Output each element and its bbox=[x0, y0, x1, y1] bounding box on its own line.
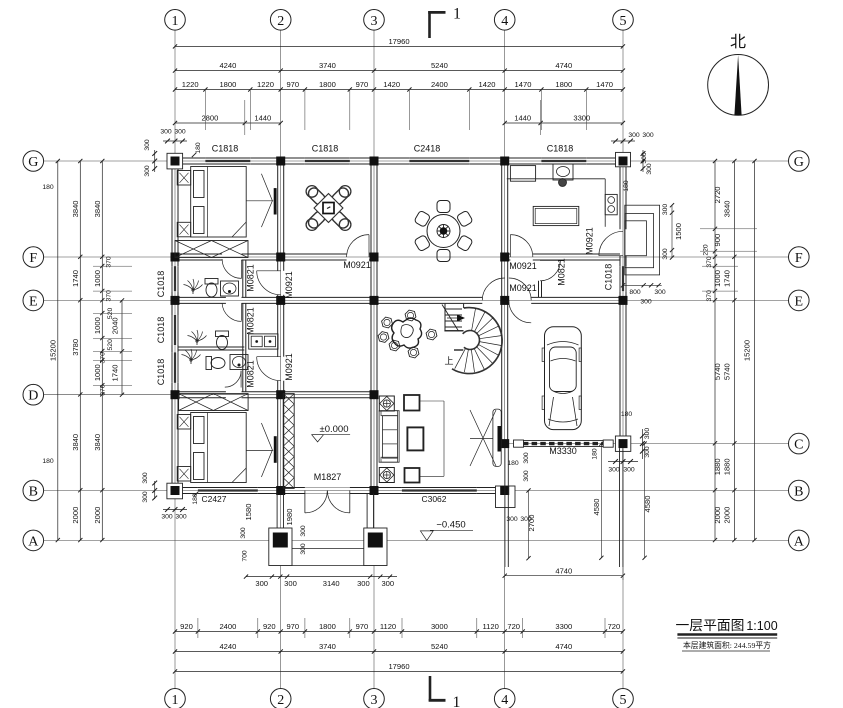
svg-text:180: 180 bbox=[621, 411, 633, 418]
svg-text:3840: 3840 bbox=[723, 200, 732, 217]
svg-text:300: 300 bbox=[523, 470, 530, 482]
svg-text:一层平面图: 一层平面图 bbox=[676, 618, 745, 633]
svg-text:1980: 1980 bbox=[285, 509, 294, 526]
svg-text:180: 180 bbox=[592, 448, 599, 460]
svg-text:180: 180 bbox=[42, 458, 54, 465]
svg-text:北: 北 bbox=[730, 33, 746, 51]
svg-text:1740: 1740 bbox=[111, 365, 120, 382]
svg-text:1800: 1800 bbox=[219, 80, 236, 89]
svg-text:C1018: C1018 bbox=[156, 359, 166, 386]
svg-text:E: E bbox=[29, 294, 38, 309]
svg-text:220: 220 bbox=[703, 244, 710, 256]
svg-text:1:100: 1:100 bbox=[746, 619, 777, 633]
svg-text:1000: 1000 bbox=[713, 270, 722, 287]
svg-text:180: 180 bbox=[192, 493, 199, 505]
svg-text:520: 520 bbox=[107, 339, 114, 351]
svg-text:3300: 3300 bbox=[555, 622, 572, 631]
svg-text:上: 上 bbox=[444, 356, 453, 366]
svg-text:1: 1 bbox=[453, 6, 461, 23]
svg-text:5740: 5740 bbox=[713, 363, 722, 380]
svg-text:B: B bbox=[29, 485, 38, 500]
svg-text:2000: 2000 bbox=[713, 507, 722, 524]
svg-text:300: 300 bbox=[640, 299, 652, 306]
svg-text:300: 300 bbox=[160, 129, 172, 136]
svg-text:1120: 1120 bbox=[483, 622, 499, 631]
svg-text:1420: 1420 bbox=[479, 80, 496, 89]
svg-text:300: 300 bbox=[662, 204, 669, 216]
svg-text:300: 300 bbox=[641, 152, 648, 164]
svg-text:300: 300 bbox=[520, 516, 532, 523]
svg-text:E: E bbox=[795, 294, 804, 309]
svg-text:920: 920 bbox=[180, 622, 193, 631]
svg-text:300: 300 bbox=[642, 132, 654, 139]
svg-text:1500: 1500 bbox=[674, 223, 683, 240]
svg-text:3840: 3840 bbox=[71, 434, 80, 451]
svg-text:300: 300 bbox=[381, 579, 394, 588]
svg-text:300: 300 bbox=[644, 446, 651, 458]
svg-text:300: 300 bbox=[175, 514, 187, 521]
svg-text:3: 3 bbox=[371, 693, 378, 708]
svg-text:M0821: M0821 bbox=[557, 258, 567, 286]
svg-text:C: C bbox=[794, 438, 803, 453]
svg-text:1740: 1740 bbox=[71, 270, 80, 287]
svg-text:720: 720 bbox=[608, 622, 621, 631]
svg-text:C1818: C1818 bbox=[547, 144, 574, 154]
svg-text:1000: 1000 bbox=[93, 317, 102, 334]
svg-text:3840: 3840 bbox=[93, 200, 102, 217]
svg-text:5240: 5240 bbox=[431, 642, 448, 651]
svg-text:970: 970 bbox=[286, 622, 299, 631]
svg-text:300: 300 bbox=[300, 543, 307, 555]
svg-text:2: 2 bbox=[277, 14, 284, 29]
svg-text:−0.450: −0.450 bbox=[436, 520, 465, 531]
svg-text:M0821: M0821 bbox=[246, 264, 256, 292]
svg-text:300: 300 bbox=[662, 248, 669, 260]
svg-text:4580: 4580 bbox=[643, 496, 652, 513]
svg-text:3000: 3000 bbox=[431, 622, 448, 631]
svg-text:4740: 4740 bbox=[555, 61, 572, 70]
svg-text:300: 300 bbox=[628, 132, 640, 139]
svg-text:1470: 1470 bbox=[596, 80, 613, 89]
svg-text:180: 180 bbox=[507, 460, 519, 467]
svg-text:1120: 1120 bbox=[380, 622, 396, 631]
svg-text:17960: 17960 bbox=[388, 662, 409, 671]
svg-text:4580: 4580 bbox=[592, 499, 601, 516]
svg-text:3780: 3780 bbox=[71, 339, 80, 356]
svg-text:370: 370 bbox=[706, 290, 713, 302]
svg-text:D: D bbox=[28, 389, 38, 404]
svg-text:5240: 5240 bbox=[431, 61, 448, 70]
svg-text:300: 300 bbox=[300, 525, 307, 537]
svg-text:300: 300 bbox=[240, 527, 247, 539]
svg-text:G: G bbox=[28, 155, 38, 170]
svg-text:1220: 1220 bbox=[182, 80, 199, 89]
svg-text:M0821: M0821 bbox=[246, 360, 256, 388]
svg-text:2400: 2400 bbox=[219, 622, 236, 631]
svg-text:15200: 15200 bbox=[743, 340, 752, 361]
svg-text:5740: 5740 bbox=[723, 363, 732, 380]
svg-text:F: F bbox=[29, 251, 37, 266]
svg-text:300: 300 bbox=[144, 165, 151, 177]
svg-text:1880: 1880 bbox=[713, 458, 722, 475]
svg-text:1440: 1440 bbox=[514, 114, 531, 123]
svg-text:300: 300 bbox=[144, 139, 151, 151]
svg-text:970: 970 bbox=[356, 622, 369, 631]
svg-text:C2418: C2418 bbox=[414, 144, 441, 154]
svg-text:1440: 1440 bbox=[254, 114, 271, 123]
svg-text:M0921: M0921 bbox=[509, 261, 537, 271]
svg-text:M0921: M0921 bbox=[509, 283, 537, 293]
svg-text:C3062: C3062 bbox=[421, 494, 446, 504]
svg-text:970: 970 bbox=[356, 80, 369, 89]
svg-text:1800: 1800 bbox=[555, 80, 572, 89]
svg-text:300: 300 bbox=[255, 579, 268, 588]
svg-text:4740: 4740 bbox=[555, 566, 572, 575]
svg-text:5: 5 bbox=[620, 14, 627, 29]
svg-text:1470: 1470 bbox=[515, 80, 532, 89]
svg-text:300: 300 bbox=[506, 516, 518, 523]
svg-text:300: 300 bbox=[142, 491, 149, 503]
svg-text:2720: 2720 bbox=[713, 186, 722, 203]
svg-text:3140: 3140 bbox=[323, 579, 340, 588]
svg-text:2400: 2400 bbox=[431, 80, 448, 89]
svg-text:300: 300 bbox=[654, 289, 666, 296]
svg-text:300: 300 bbox=[142, 472, 149, 484]
svg-text:2000: 2000 bbox=[723, 507, 732, 524]
svg-text:180: 180 bbox=[42, 184, 54, 191]
svg-text:4: 4 bbox=[501, 14, 508, 29]
svg-text:970: 970 bbox=[286, 80, 299, 89]
svg-text:4240: 4240 bbox=[219, 61, 236, 70]
svg-text:300: 300 bbox=[284, 579, 297, 588]
svg-text:3300: 3300 bbox=[573, 114, 590, 123]
svg-text:3: 3 bbox=[371, 14, 378, 29]
svg-text:本层建筑面积: 244.59平方: 本层建筑面积: 244.59平方 bbox=[683, 640, 771, 650]
svg-text:A: A bbox=[28, 534, 39, 549]
svg-text:4740: 4740 bbox=[555, 642, 572, 651]
svg-text:300: 300 bbox=[623, 467, 635, 474]
svg-text:300: 300 bbox=[174, 129, 186, 136]
svg-text:M0821: M0821 bbox=[246, 307, 256, 335]
svg-text:4: 4 bbox=[501, 693, 508, 708]
svg-text:800: 800 bbox=[629, 289, 641, 296]
svg-text:3740: 3740 bbox=[319, 61, 336, 70]
svg-text:900: 900 bbox=[713, 234, 722, 247]
svg-text:300: 300 bbox=[523, 452, 530, 464]
svg-text:1: 1 bbox=[453, 694, 461, 708]
svg-text:C2427: C2427 bbox=[201, 494, 226, 504]
svg-text:M0921: M0921 bbox=[585, 227, 595, 255]
svg-text:1580: 1580 bbox=[244, 504, 253, 521]
svg-text:1000: 1000 bbox=[93, 364, 102, 381]
svg-text:3840: 3840 bbox=[93, 434, 102, 451]
svg-text:C1818: C1818 bbox=[312, 144, 339, 154]
svg-text:300: 300 bbox=[161, 514, 173, 521]
svg-text:370: 370 bbox=[100, 384, 107, 396]
svg-text:B: B bbox=[794, 485, 803, 500]
svg-text:3840: 3840 bbox=[71, 200, 80, 217]
svg-text:M0921: M0921 bbox=[284, 271, 294, 299]
svg-text:370: 370 bbox=[706, 256, 713, 268]
svg-text:700: 700 bbox=[241, 550, 248, 562]
svg-text:300: 300 bbox=[608, 467, 620, 474]
svg-text:720: 720 bbox=[507, 622, 520, 631]
svg-text:15200: 15200 bbox=[48, 340, 57, 361]
svg-text:180: 180 bbox=[623, 180, 630, 192]
svg-text:180: 180 bbox=[195, 142, 202, 154]
svg-text:370: 370 bbox=[106, 256, 113, 268]
svg-text:2000: 2000 bbox=[71, 507, 80, 524]
svg-text:1420: 1420 bbox=[383, 80, 400, 89]
svg-text:920: 920 bbox=[263, 622, 276, 631]
svg-text:1220: 1220 bbox=[257, 80, 274, 89]
svg-text:G: G bbox=[794, 155, 804, 170]
svg-text:M3330: M3330 bbox=[549, 446, 577, 456]
svg-text:1: 1 bbox=[172, 14, 179, 29]
svg-text:M1827: M1827 bbox=[314, 472, 342, 482]
svg-text:1740: 1740 bbox=[723, 270, 732, 287]
svg-text:2800: 2800 bbox=[201, 114, 218, 123]
svg-text:3740: 3740 bbox=[319, 642, 336, 651]
svg-text:C1018: C1018 bbox=[156, 271, 166, 298]
svg-text:5: 5 bbox=[620, 693, 627, 708]
svg-text:300: 300 bbox=[644, 428, 651, 440]
svg-text:2000: 2000 bbox=[93, 507, 102, 524]
svg-text:A: A bbox=[794, 534, 805, 549]
svg-text:370: 370 bbox=[106, 290, 113, 302]
svg-text:1000: 1000 bbox=[93, 270, 102, 287]
svg-text:17960: 17960 bbox=[388, 37, 409, 46]
svg-text:F: F bbox=[795, 251, 803, 266]
svg-text:1880: 1880 bbox=[723, 458, 732, 475]
svg-text:M0921: M0921 bbox=[284, 353, 294, 381]
svg-text:1: 1 bbox=[172, 693, 179, 708]
svg-text:C1018: C1018 bbox=[156, 317, 166, 344]
svg-text:C1818: C1818 bbox=[212, 144, 239, 154]
svg-text:C1018: C1018 bbox=[604, 264, 614, 291]
svg-text:300: 300 bbox=[646, 163, 653, 175]
svg-text:1800: 1800 bbox=[319, 80, 336, 89]
svg-text:4240: 4240 bbox=[219, 642, 236, 651]
svg-text:M0921: M0921 bbox=[343, 260, 371, 270]
svg-text:±0.000: ±0.000 bbox=[320, 424, 349, 435]
svg-text:300: 300 bbox=[357, 579, 370, 588]
svg-text:370: 370 bbox=[100, 352, 107, 364]
svg-text:2: 2 bbox=[277, 693, 284, 708]
svg-text:1800: 1800 bbox=[319, 622, 336, 631]
